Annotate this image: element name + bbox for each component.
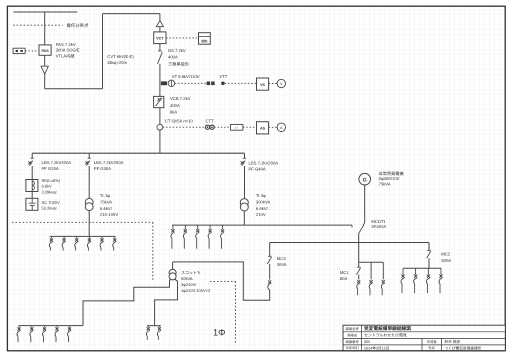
svg-text:Tr 3φ: Tr 3φ <box>256 193 266 198</box>
svg-text:受変電設備単線結線図: 受変電設備単線結線図 <box>364 325 411 331</box>
svg-text:75kVA: 75kVA <box>100 200 112 205</box>
svg-text:図面名称: 図面名称 <box>346 327 360 331</box>
svg-text:300kVA: 300kVA <box>256 200 271 205</box>
svg-text:LBS 7.2kV200A: LBS 7.2kV200A <box>94 160 124 165</box>
svg-text:MC1: MC1 <box>340 270 350 275</box>
svg-text:鈴木 積彦: 鈴木 積彦 <box>445 339 461 344</box>
svg-text:CVT 6kV(E-E): CVT 6kV(E-E) <box>107 54 134 59</box>
svg-text:3φ210V/: 3φ210V/ <box>181 282 197 287</box>
svg-text:作成者: 作成者 <box>427 340 438 344</box>
svg-text:現場名: 現場名 <box>347 333 357 337</box>
svg-text:MC3: MC3 <box>277 256 287 261</box>
svg-text:MCDT1: MCDT1 <box>371 219 386 224</box>
svg-text:PF G20A: PF G20A <box>42 166 59 171</box>
svg-text:300A: 300A <box>277 262 287 267</box>
svg-text:300A SOG/E: 300A SOG/E <box>56 48 80 53</box>
svg-text:PF G40A: PF G40A <box>249 166 266 171</box>
svg-text:PAS: PAS <box>41 49 49 53</box>
svg-text:8kA: 8kA <box>170 110 177 115</box>
svg-text:3φ3W210V: 3φ3W210V <box>379 176 400 181</box>
svg-text:400A: 400A <box>170 103 180 108</box>
svg-text:6.6kV/: 6.6kV/ <box>100 206 113 211</box>
svg-text:75kVA: 75kVA <box>379 182 391 187</box>
svg-text:VS: VS <box>260 83 265 87</box>
svg-text:セントラルわかたけ岡見: セントラルわかたけ岡見 <box>364 333 407 338</box>
svg-text:責任分界点: 責任分界点 <box>67 23 90 28</box>
svg-text:Tr 1φ: Tr 1φ <box>100 193 110 198</box>
svg-text:VTT: VTT <box>219 74 227 79</box>
svg-text:210V: 210V <box>256 212 266 217</box>
svg-text:1Φ: 1Φ <box>213 328 225 338</box>
svg-text:作成/改訂: 作成/改訂 <box>346 346 359 350</box>
svg-text:80A: 80A <box>340 276 348 281</box>
svg-text:I+: I+ <box>235 126 238 130</box>
svg-text:53.2kvar: 53.2kvar <box>42 206 58 211</box>
svg-text:210-105V: 210-105V <box>100 212 118 217</box>
svg-text:G: G <box>363 177 367 183</box>
svg-text:3P400A: 3P400A <box>371 224 386 229</box>
svg-text:2024年3月12日: 2024年3月12日 <box>364 345 390 350</box>
svg-text:300A: 300A <box>441 258 451 263</box>
svg-text:400A: 400A <box>168 55 178 60</box>
svg-text:PAS 7.2kV: PAS 7.2kV <box>56 42 76 47</box>
svg-text:PF G30A: PF G30A <box>94 166 111 171</box>
svg-text:社名: 社名 <box>428 346 435 350</box>
svg-text:スコットTr: スコットTr <box>181 270 201 275</box>
svg-text:065: 065 <box>364 340 370 344</box>
svg-text:Wh: Wh <box>201 39 208 44</box>
svg-text:CT 50/5A n>10: CT 50/5A n>10 <box>165 119 194 124</box>
svg-text:DS 7.2kV: DS 7.2kV <box>168 48 186 53</box>
svg-text:VTLA内蔵: VTLA内蔵 <box>56 53 76 58</box>
svg-text:50kVA: 50kVA <box>181 276 193 281</box>
svg-text:SC 7020V: SC 7020V <box>42 200 61 205</box>
svg-text:三極単投形: 三極単投形 <box>168 62 190 67</box>
svg-text:LBS 7.2kV200A: LBS 7.2kV200A <box>249 161 279 166</box>
svg-text:CTT: CTT <box>206 119 215 124</box>
svg-text:6.6kV: 6.6kV <box>42 184 53 189</box>
svg-text:非常用発電機: 非常用発電機 <box>379 171 405 176</box>
svg-text:VT 6.6kV/110V: VT 6.6kV/110V <box>172 74 200 79</box>
svg-text:1φ210V-105V×2: 1φ210V-105V×2 <box>181 288 211 293</box>
svg-text:MC2: MC2 <box>441 252 451 257</box>
svg-text:6.6kV/: 6.6kV/ <box>256 206 269 211</box>
svg-text:3.29kvar: 3.29kvar <box>42 190 58 195</box>
svg-text:AS: AS <box>260 127 266 131</box>
svg-text:SR(L=6%): SR(L=6%) <box>42 178 61 183</box>
svg-text:図面番号: 図面番号 <box>346 340 360 344</box>
svg-text:つくば電気管理事務所: つくば電気管理事務所 <box>445 345 482 350</box>
svg-text:38sq×20m: 38sq×20m <box>107 60 127 65</box>
svg-text:VCB 7.2kV: VCB 7.2kV <box>170 96 191 101</box>
svg-text:LBS 7.2kV200A: LBS 7.2kV200A <box>42 160 72 165</box>
svg-text:VCT: VCT <box>156 37 164 41</box>
